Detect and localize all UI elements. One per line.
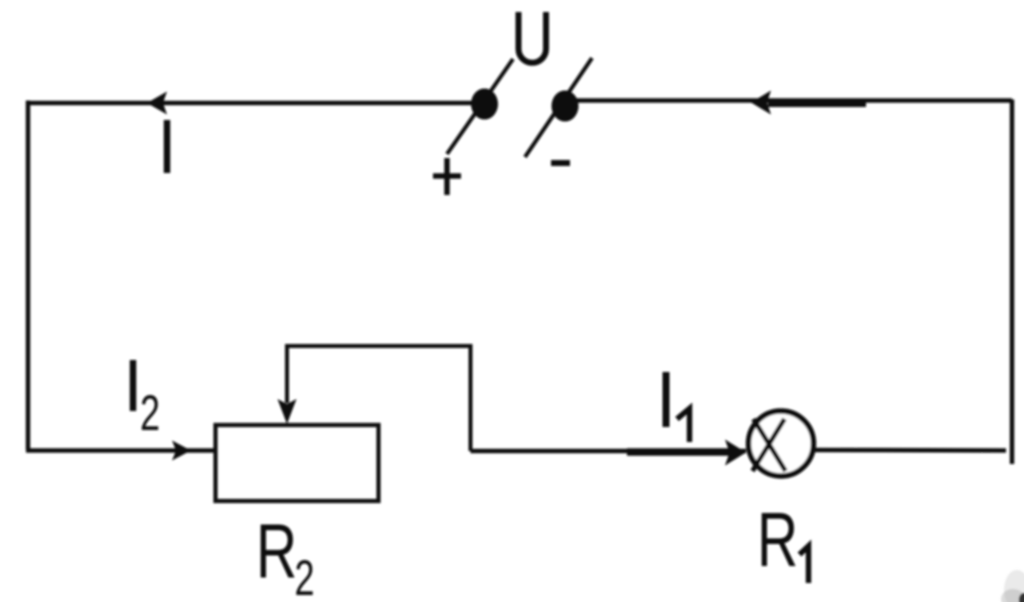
lamp R1 X mark <box>753 419 786 471</box>
wire right vertical <box>1010 100 1015 465</box>
arrowhead current I on top wire <box>147 92 167 115</box>
wire bottom-left segment <box>26 448 217 453</box>
label R1 <box>757 498 809 583</box>
label I1 <box>666 372 690 442</box>
wire bottom-middle segment <box>471 449 747 454</box>
svg-text:R: R <box>256 509 297 594</box>
arrowhead current I2 on bottom-left wire <box>172 441 191 461</box>
thick current arrow top-right <box>751 91 866 115</box>
label I (current, top left) <box>164 120 171 173</box>
corner artifact bottom-right <box>1001 570 1024 602</box>
svg-text:2: 2 <box>295 551 315 602</box>
label - (minus polarity) <box>551 160 570 166</box>
svg-text:2: 2 <box>140 386 160 441</box>
wire top-left segment <box>28 101 484 106</box>
wire left vertical <box>26 101 31 451</box>
rheostat wiper <box>278 344 471 451</box>
label U (source voltage) <box>519 12 547 63</box>
wire bottom-right segment <box>814 448 1006 453</box>
label I2 <box>133 360 160 441</box>
label R2 <box>256 509 315 602</box>
battery terminal slash left <box>447 59 513 154</box>
wire top-right segment <box>563 98 1012 103</box>
svg-text:R: R <box>757 498 798 583</box>
label + (plus polarity) <box>433 158 461 195</box>
battery terminal dot right (-) <box>552 91 579 122</box>
battery terminal dot left (+) <box>471 89 498 120</box>
lamp R1 circle <box>749 411 814 476</box>
battery terminal slash right <box>525 58 592 157</box>
thick current arrow I1 <box>627 440 746 466</box>
resistor R2 (rheostat) body <box>216 425 379 501</box>
